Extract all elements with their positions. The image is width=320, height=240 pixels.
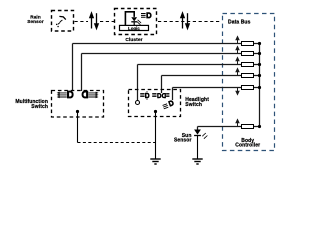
svg-text:Controller: Controller: [235, 143, 260, 149]
svg-text:Data Bus: Data Bus: [228, 19, 251, 25]
svg-text:Switch: Switch: [31, 104, 48, 110]
svg-text:Sensor: Sensor: [174, 138, 192, 144]
svg-text:Cluster: Cluster: [125, 37, 142, 43]
svg-text:Logic: Logic: [128, 26, 140, 31]
svg-text:Switch: Switch: [185, 102, 202, 108]
svg-text:Sensor: Sensor: [27, 19, 44, 24]
